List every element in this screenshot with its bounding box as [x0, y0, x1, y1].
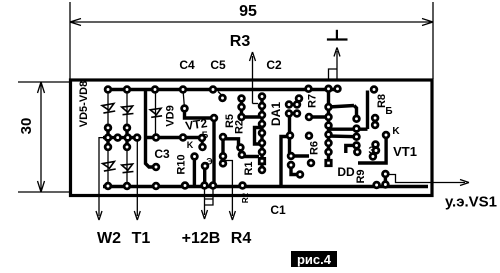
trace VT2 collector — [185, 109, 215, 119]
dimension 95 extension line right — [432, 2, 434, 79]
label C3 — [154, 147, 170, 161]
trace R7 stub — [309, 115, 329, 118]
diode VD8 — [122, 164, 134, 173]
pad VT2 collector — [211, 115, 217, 121]
wire +12V loop — [205, 188, 214, 205]
pad top bus 4 — [180, 87, 186, 93]
wire +12V left — [202, 188, 208, 219]
svg-text:R7: R7 — [307, 94, 319, 108]
pad col c6 — [326, 149, 332, 155]
pad R2b — [220, 134, 226, 140]
pad top bus 7 — [326, 86, 332, 92]
bottom bus trace — [103, 185, 428, 188]
pad cross 2 — [115, 135, 121, 141]
wire VD6 anode — [126, 90, 128, 128]
pad top bus 8 — [335, 86, 341, 92]
pad R10 top — [192, 154, 198, 160]
pad R5 1 — [239, 96, 245, 102]
pad DA1 p8 — [259, 158, 264, 163]
svg-text:R1: R1 — [243, 161, 255, 175]
pad r c3 — [354, 134, 360, 140]
pad DA1 p6 — [259, 140, 265, 146]
wire R3 vertical — [250, 52, 256, 104]
svg-text:C1: C1 — [270, 203, 286, 217]
trace rectifier cross bar — [103, 128, 141, 147]
pad bottom 2 — [124, 183, 130, 189]
pad bottom 4 — [202, 183, 208, 189]
label VT1 — [393, 144, 417, 159]
svg-text:C5: C5 — [210, 58, 226, 72]
pad VT1 e2 — [373, 142, 379, 148]
pad DA1 p9 — [259, 167, 265, 173]
wire VD5 anode — [107, 90, 109, 128]
pad R5 3 — [239, 114, 245, 120]
trace left column — [221, 137, 224, 163]
pad step — [288, 162, 294, 168]
diode VD6 — [122, 106, 134, 115]
diode VD7 — [103, 162, 116, 172]
svg-text:Б: Б — [385, 106, 392, 117]
pad quad 1 — [286, 102, 292, 108]
label B (VT1 base) — [385, 106, 392, 117]
pad r c1 — [354, 116, 360, 122]
pad cross 4 — [134, 135, 140, 141]
pad col c4 — [326, 132, 332, 138]
pad R2c — [220, 153, 226, 159]
pad col c1 — [326, 104, 332, 110]
board outline — [71, 80, 433, 196]
pad col c2 — [326, 114, 332, 120]
pad mid row 1 — [153, 135, 159, 141]
svg-text:+12В: +12В — [182, 230, 221, 247]
pad VT2 base — [182, 106, 188, 112]
pad DD a — [354, 143, 360, 149]
wire VD7 cathode — [107, 147, 109, 186]
label +12V — [182, 230, 221, 247]
pad R6 right — [308, 160, 314, 166]
trace C3 vertical — [146, 91, 154, 167]
label W2 — [97, 230, 121, 247]
trace gate cluster — [384, 174, 387, 185]
pad DA1 p1 — [259, 94, 265, 100]
pad corner — [370, 154, 376, 160]
wire R3 to DA1 — [253, 103, 259, 105]
trace quad to R6 — [288, 116, 291, 153]
svg-text:R2: R2 — [241, 192, 250, 203]
pad R5 2 — [239, 104, 245, 110]
pad DA1 p5 — [259, 130, 265, 136]
trace VT2 emitter stub — [201, 138, 205, 147]
wire VD9 — [155, 90, 157, 138]
pad R1 bottom — [239, 152, 245, 158]
wire T1 vertical — [134, 138, 140, 220]
pad C1 top — [287, 133, 293, 139]
wire to control electrode VS1 — [388, 175, 469, 186]
resistor R8 label — [376, 94, 388, 108]
pad VT1 e4 — [373, 148, 379, 154]
trace link bar1 — [329, 127, 368, 130]
dimension label 95 — [239, 3, 257, 20]
label u.e.VS1 — [445, 194, 497, 211]
pad E — [202, 163, 208, 169]
resistor R9 label — [355, 169, 367, 183]
pad R6 left — [288, 153, 294, 159]
svg-text:рис.4: рис.4 — [297, 252, 332, 267]
svg-text:C3: C3 — [154, 147, 170, 161]
pad col c3 — [326, 123, 332, 129]
resistor R2 label — [234, 120, 246, 134]
trace R10 — [193, 157, 196, 187]
pad R7 left — [306, 114, 312, 120]
figure caption ris.4 — [291, 251, 337, 267]
label E (VT2) — [206, 157, 213, 167]
pad VD5 — [105, 125, 111, 131]
wire to ground with arrow — [329, 48, 341, 80]
pad top bus 3 — [152, 87, 158, 93]
pad R2d — [220, 161, 226, 167]
pad gate 1 — [383, 171, 389, 177]
pad DD b — [354, 149, 360, 155]
wire R4 vertical — [225, 161, 235, 221]
label K (VT1 collector) — [392, 126, 400, 137]
trace DA1 link — [242, 115, 262, 118]
trace mid row — [147, 136, 203, 139]
pad gate 2 — [374, 182, 380, 188]
trace R5 column — [240, 99, 243, 118]
svg-text:R6: R6 — [309, 141, 321, 155]
wire to VT2 base — [183, 90, 185, 109]
label VT2 — [184, 116, 208, 133]
pad quad 2 — [294, 102, 300, 108]
label T1 — [132, 230, 151, 247]
pad r c2 — [354, 126, 360, 132]
trace DD step — [346, 145, 357, 153]
label B (VT2 base) — [202, 130, 209, 140]
label C2 — [266, 58, 282, 72]
resistor R6 label — [309, 141, 321, 155]
trace center column — [327, 90, 330, 164]
label R2 bottom small — [241, 192, 250, 203]
svg-text:30: 30 — [18, 118, 35, 135]
pad R1 top — [238, 145, 244, 151]
trace to R1 — [225, 139, 239, 146]
pad VD7 — [105, 144, 111, 150]
pad col c5 — [326, 140, 332, 146]
trace C1 vertical — [281, 137, 287, 187]
pad B1 — [372, 115, 378, 121]
trace top link — [329, 106, 355, 108]
pad step2 — [297, 172, 303, 178]
top bus trace — [104, 88, 338, 91]
trace VT1 collector L — [358, 136, 386, 163]
wire emitter to pad — [203, 167, 206, 185]
pad K1 — [383, 132, 389, 138]
trace DA1 step — [255, 128, 263, 145]
wire W2 vertical — [96, 138, 108, 220]
dimension 30 extension line bottom — [18, 191, 69, 193]
svg-text:C2: C2 — [266, 58, 282, 72]
resistor R10 — [176, 154, 188, 174]
label VD5-VD8 — [78, 81, 90, 127]
diode VD5 — [102, 104, 115, 114]
svg-text:C4: C4 — [179, 58, 195, 72]
svg-text:R3: R3 — [230, 33, 251, 50]
pad mid row 2 — [180, 135, 186, 141]
svg-text:у.э.VS1: у.э.VS1 — [445, 194, 497, 211]
pad B2 — [372, 122, 378, 128]
label DD — [337, 165, 355, 179]
dimension label 30 — [18, 118, 35, 135]
pad VD6 — [124, 125, 130, 131]
wire VD8 cathode — [126, 147, 128, 186]
label C5 — [210, 58, 226, 72]
pad VT2 emitter — [200, 144, 206, 150]
pad top bus 6 — [306, 86, 312, 92]
svg-text:VD5-VD8: VD5-VD8 — [78, 81, 90, 127]
pad C4 — [220, 95, 226, 101]
pad DD sq — [326, 160, 331, 165]
svg-text:VT1: VT1 — [393, 144, 417, 159]
label E (VT1 emitter) — [368, 146, 374, 157]
svg-text:R9: R9 — [355, 169, 367, 183]
pad quad 4 — [294, 111, 300, 117]
pad top bus 5 — [210, 87, 216, 93]
trace R8 vertical — [366, 91, 369, 130]
dimension 30 extension line top — [18, 81, 69, 83]
svg-text:R2: R2 — [234, 120, 246, 134]
pad bottom 3 — [153, 183, 159, 189]
pad C3 — [153, 164, 159, 170]
pad DA1 p4 — [259, 121, 265, 127]
op-amp DA1 column trace — [260, 97, 263, 171]
label K (VT2) — [187, 140, 194, 150]
pad DA1 p2 — [259, 103, 265, 109]
label DA1 — [269, 102, 283, 126]
svg-text:W2: W2 — [97, 230, 121, 247]
trace R1 to DA1 — [242, 155, 259, 158]
svg-text:DD: DD — [337, 165, 355, 179]
svg-text:95: 95 — [239, 3, 257, 20]
resistor R5 label — [224, 114, 236, 128]
pad top bus 2 — [124, 87, 130, 93]
pad bottom 1 — [105, 183, 111, 189]
pad top bus 1 — [105, 87, 111, 93]
label R4 bottom — [231, 230, 252, 247]
stub pad C4 — [218, 92, 223, 97]
pads — [105, 86, 389, 189]
pad cross 3 — [125, 135, 131, 141]
pad DA1 p3 — [259, 112, 265, 118]
pad bottom 5 — [210, 183, 216, 189]
pad VD8 — [124, 144, 130, 150]
pad R8 top — [371, 87, 377, 93]
pad DA1 p7 — [259, 149, 265, 155]
pad mid row 3 — [199, 135, 205, 141]
svg-text:DA1: DA1 — [269, 102, 283, 126]
pad gate 3 — [383, 182, 389, 188]
svg-text:K: K — [187, 140, 194, 150]
dimension 95 extension line left — [69, 2, 71, 79]
resistor R7 label — [307, 94, 319, 108]
dimension line 30 — [38, 82, 45, 192]
ground symbol — [327, 30, 348, 40]
trace right link — [354, 106, 357, 119]
label VD9 — [165, 105, 177, 126]
label C4 — [179, 58, 195, 72]
pad R10 bottom — [182, 183, 188, 189]
pad R7 left2 — [306, 133, 312, 139]
svg-text:R10: R10 — [176, 154, 188, 174]
trace step mid — [291, 165, 300, 175]
pad quad 3 — [286, 111, 292, 117]
pad cross 1 — [105, 135, 111, 141]
trace link bar2 — [329, 134, 357, 138]
svg-text:K: K — [392, 126, 400, 137]
pad C2 — [296, 96, 302, 102]
diode VD9 — [150, 108, 162, 117]
svg-text:VD9: VD9 — [165, 105, 177, 126]
dimension line 95 — [70, 19, 433, 26]
svg-text:R4: R4 — [231, 230, 252, 247]
trace +12V rail vertical — [212, 118, 215, 186]
label R3 — [230, 33, 251, 50]
label C1 — [270, 203, 286, 217]
resistor R1 label — [243, 161, 255, 175]
svg-text:T1: T1 — [132, 230, 151, 247]
pad bottom 6 — [240, 183, 246, 189]
trace R6 horizontal — [291, 154, 309, 157]
